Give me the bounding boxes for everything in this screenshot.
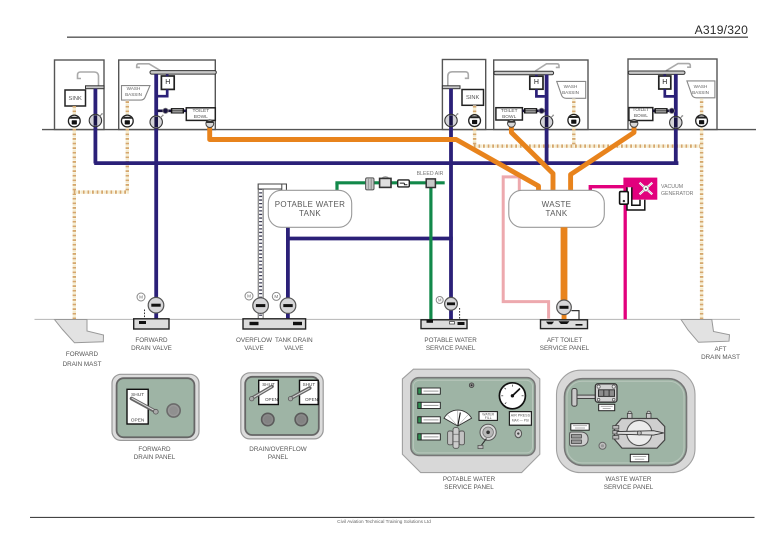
aft toilet service panel plinth: [541, 320, 588, 329]
lavatory unit 4 box: [494, 60, 588, 130]
lavatory unit 2 box: [119, 60, 216, 130]
flush pump unit2: [163, 108, 168, 113]
bleed air check valve: [398, 180, 410, 187]
potable water service panel: [402, 369, 539, 472]
drain trap valve unit3: [469, 115, 481, 127]
heater loop unit5: [665, 75, 675, 97]
drain line unit4 bassin: [572, 98, 575, 147]
label TANK DRAIN VALVE: [275, 337, 313, 354]
flush valve unit2: [171, 108, 184, 113]
heater box unit2: [161, 76, 174, 89]
bleed air line horizontal: [335, 181, 444, 184]
wash bassin unit2: [121, 86, 150, 101]
vacuum generator duct: [627, 187, 645, 210]
potable water tank: [268, 190, 351, 227]
wash counter unit2: [150, 71, 216, 75]
heater loop unit4: [536, 75, 545, 97]
toilet bowl box unit4: [496, 108, 523, 120]
svg-text:M: M: [274, 294, 278, 299]
vacuum generator suction line: [590, 187, 623, 192]
overflow pipe tank stub: [282, 184, 287, 191]
forward drain panel: [112, 374, 199, 440]
bleed air tap node: [426, 179, 435, 188]
potable water riser unit3 / service leg: [449, 89, 453, 320]
waste line unit5 toilet: [571, 125, 634, 197]
waste water service panel: [557, 370, 696, 472]
galley unit 1 box: [55, 60, 105, 130]
label H unit2: [165, 79, 170, 87]
toilet outlet unit5: [630, 120, 638, 128]
drain line unit5 bassin to aft mast: [700, 98, 703, 321]
heater box unit5: [659, 76, 671, 89]
wash counter unit4: [494, 71, 554, 75]
faucet unit5: [666, 64, 690, 71]
label VACUUM GENERATOR: [661, 184, 693, 199]
toilet outlet unit2: [206, 120, 214, 128]
waste tank: [509, 190, 605, 227]
overflow valve ball: [253, 298, 269, 314]
forward drain mast: [55, 320, 104, 343]
flush valve unit5: [654, 108, 667, 113]
flush pump unit5: [669, 108, 674, 113]
label FORWARD DRAIN MAST: [63, 350, 102, 370]
label SINK unit3: [466, 94, 479, 102]
label FORWARD DRAIN VALVE: [131, 337, 172, 354]
forward drain valve motor: [137, 293, 145, 301]
bleed air tank stub: [335, 183, 338, 192]
water shutoff valve unit4: [540, 115, 554, 129]
svg-text:FILL: FILL: [485, 416, 492, 420]
fuselage lower skin line: [35, 318, 741, 320]
faucet unit2: [137, 64, 161, 71]
label AFT DRAIN MAST: [701, 346, 740, 363]
label OVERFLOW VALVE: [236, 337, 272, 354]
label BLEED AIR: [417, 170, 444, 178]
wash counter unit5: [628, 71, 685, 74]
water shutoff valve unit5: [670, 115, 684, 129]
bleed air filter cylinder: [366, 178, 374, 190]
drain trap valve unit1: [68, 115, 80, 127]
sink counter bar unit3: [442, 86, 460, 89]
drain line unit2 bassin: [126, 100, 129, 192]
svg-text:AIR PRESS: AIR PRESS: [511, 414, 531, 418]
svg-text:M: M: [247, 294, 251, 299]
lavatory unit 5 box: [628, 59, 717, 130]
waste tank drain line: [561, 227, 568, 301]
label TOILET BOWL unit4: [501, 109, 518, 121]
potable tank fill branch: [286, 237, 453, 241]
svg-text:OPEN: OPEN: [265, 397, 278, 402]
forward drain valve ball: [148, 297, 164, 313]
waste rinse line pink: [503, 177, 548, 319]
vacuum generator body: [623, 178, 657, 200]
potable service valve ball: [445, 297, 458, 310]
overflow and tank drain plinth: [243, 319, 306, 329]
potable water riser unit4: [545, 75, 549, 164]
potable service panel plinth: [421, 320, 467, 329]
drain overflow panel: [241, 373, 323, 439]
flush pump unit4: [539, 108, 544, 113]
tank drain valve ball: [280, 298, 296, 314]
SINK box unit3: [462, 90, 484, 106]
potable tank drain leg: [286, 227, 290, 319]
water shutoff valve unit2: [150, 115, 164, 129]
label DRAIN/OVERFLOW PANEL: [249, 446, 306, 463]
drain collector aft: [473, 144, 703, 147]
footer text: [337, 518, 431, 526]
water shutoff valve unit3: [445, 113, 459, 127]
forward drain panel plinth: [134, 319, 169, 329]
cabin floor line: [42, 129, 756, 131]
toilet bowl box unit2: [186, 108, 215, 121]
waste main line from unit2 toilet: [210, 126, 539, 197]
drain line unit1 sink: [73, 106, 76, 321]
svg-text:M: M: [139, 295, 143, 300]
label FORWARD DRAIN PANEL: [134, 446, 176, 463]
overflow valve motor: [245, 292, 253, 300]
flush valve unit4: [524, 108, 537, 113]
potable water riser unit5: [674, 74, 678, 164]
flush supply line unit4: [522, 109, 545, 112]
label POTABLE WATER TANK: [275, 200, 345, 218]
potable water main line horizontal: [94, 161, 678, 165]
potable service valve motor: [436, 297, 443, 304]
label WASH BASSIN unit2: [125, 86, 142, 98]
label POTABLE WATER SERVICE PANEL lower: [443, 476, 495, 493]
aft toilet valve bracket: [572, 311, 580, 320]
potable water riser unit1: [94, 89, 98, 164]
svg-text:OPEN: OPEN: [131, 418, 145, 424]
tank drain valve motor: [272, 292, 280, 300]
label POTABLE WATER SERVICE PANEL upper: [424, 337, 476, 354]
toilet bowl box unit5: [629, 108, 653, 121]
svg-text:OPEN: OPEN: [305, 397, 318, 402]
vacuum generator overboard vent: [624, 199, 627, 319]
drain trap valve unit4: [568, 114, 580, 126]
forward drain valve link: [144, 310, 146, 320]
vacuum generator muffler: [620, 192, 629, 205]
vacuum generator fan: [640, 183, 653, 195]
overflow pipe top run: [258, 184, 286, 189]
faucet unit3: [448, 72, 469, 86]
footer rule: [30, 516, 755, 518]
drain trap valve unit2: [121, 115, 133, 127]
aft toilet drain valve ball: [557, 300, 572, 315]
svg-text:MAX — PSI: MAX — PSI: [512, 419, 529, 423]
flush supply line unit5: [653, 109, 675, 112]
faucet unit1: [78, 72, 99, 86]
potable water riser unit2 / forward drain leg: [154, 74, 158, 319]
galley unit 3 box: [442, 60, 485, 130]
aft drain mast: [681, 320, 730, 343]
flush supply line unit2: [158, 109, 187, 112]
bleed air regulator: [380, 177, 391, 188]
heater loop unit2: [158, 74, 168, 96]
overflow pipe vertical: [258, 184, 263, 319]
sink counter bar unit1: [86, 86, 105, 89]
wash bassin unit5: [687, 81, 715, 98]
label WASTE TANK: [542, 200, 572, 218]
waste line unit4 toilet: [511, 125, 553, 197]
faucet unit4: [535, 64, 559, 71]
heater box unit4: [530, 76, 543, 89]
label WASTE WATER SERVICE PANEL: [604, 476, 653, 493]
potable service valve link: [459, 308, 461, 320]
label H unit5: [662, 79, 667, 87]
toilet outlet unit4: [508, 119, 516, 127]
label AFT TOILET SERVICE PANEL: [540, 337, 589, 354]
label SINK unit1: [69, 95, 82, 103]
label TOILET BOWL unit5: [633, 108, 650, 120]
label TOILET BOWL unit2: [192, 109, 209, 121]
title A319/320: [695, 23, 748, 37]
drain line unit3 sink: [473, 105, 476, 147]
svg-text:M: M: [438, 298, 442, 303]
label H unit4: [534, 79, 539, 87]
drain collector forward: [73, 190, 129, 193]
bleed air service drop: [429, 187, 432, 320]
SINK box unit1: [65, 90, 86, 106]
label WASH BASSIN unit5: [692, 84, 709, 96]
wash bassin unit4: [557, 81, 586, 98]
drain trap valve unit5: [696, 115, 708, 127]
label WASH BASSIN unit4: [562, 84, 579, 96]
top rule: [67, 36, 748, 38]
water shutoff valve unit1: [89, 113, 103, 127]
